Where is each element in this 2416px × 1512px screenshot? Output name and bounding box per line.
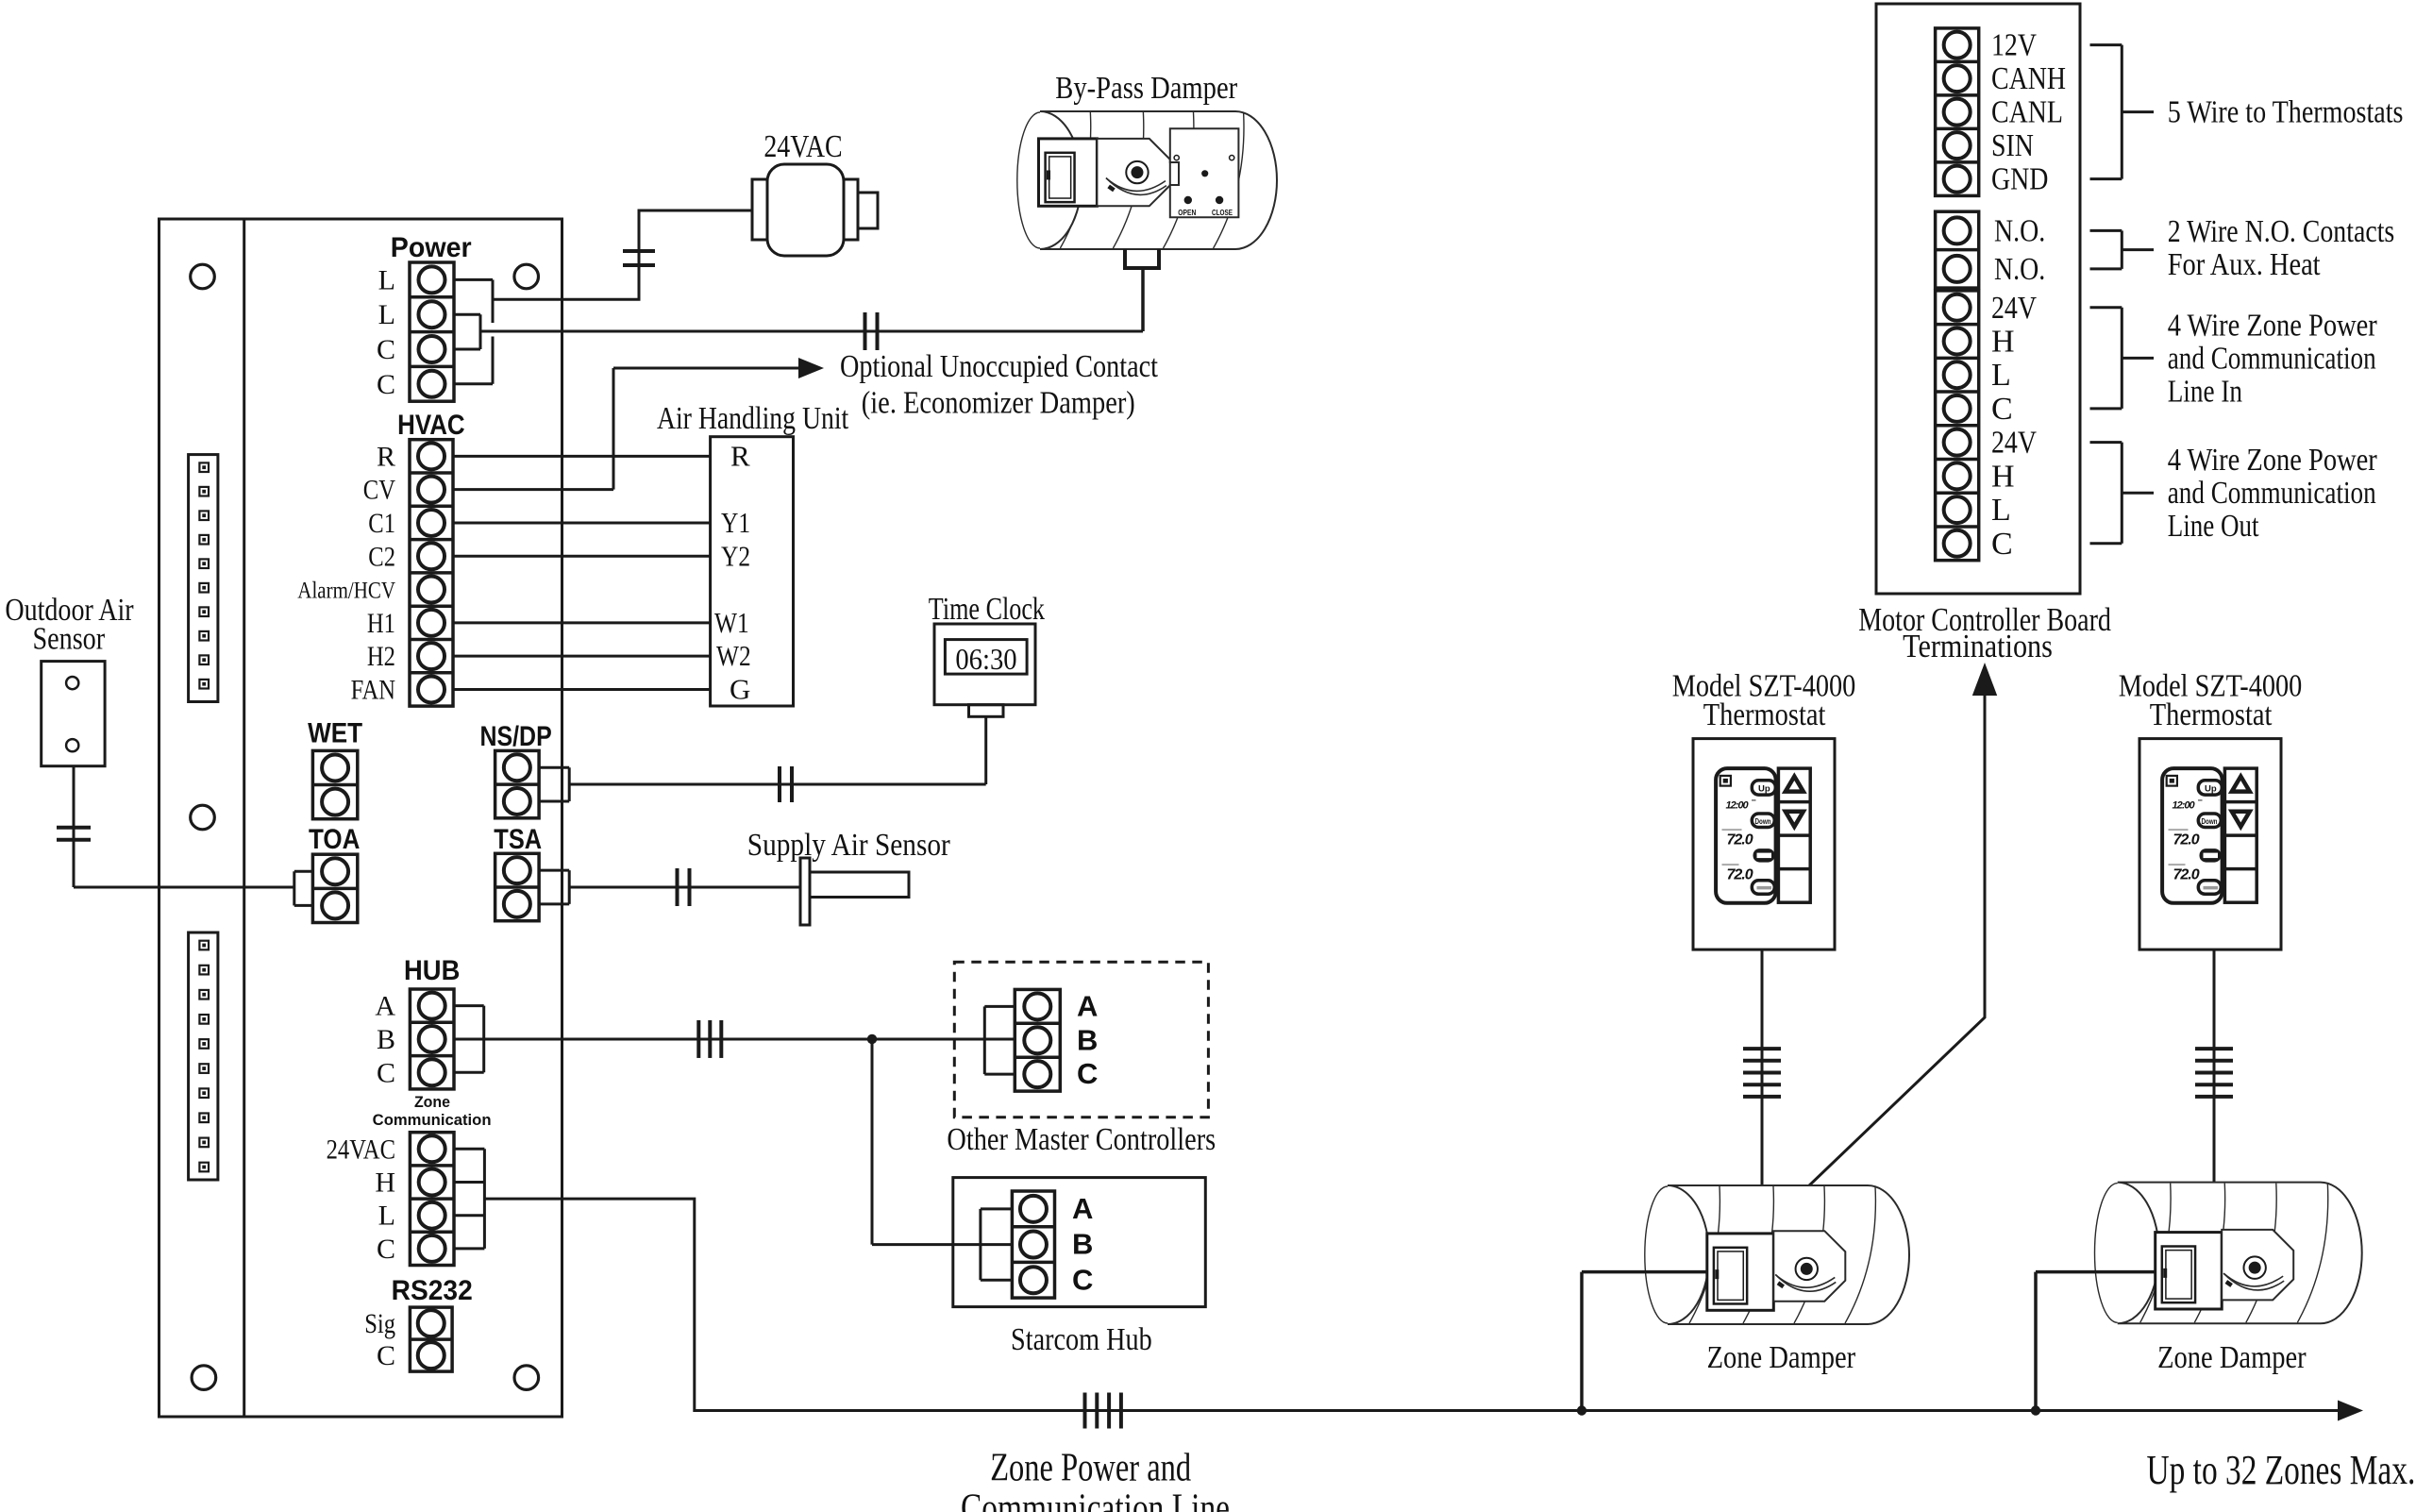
svg-text:72.0: 72.0 [2173,832,2200,848]
svg-text:Other Master Controllers: Other Master Controllers [947,1122,1216,1157]
svg-text:24VAC: 24VAC [327,1134,395,1165]
svg-text:C: C [377,1057,395,1088]
svg-text:12:00: 12:00 [2173,800,2196,812]
svg-text:R: R [377,441,395,472]
svg-text:Zone Damper: Zone Damper [2157,1340,2307,1375]
svg-text:72.0: 72.0 [2173,867,2200,883]
svg-text:WET: WET [308,718,362,749]
svg-text:Y1: Y1 [721,506,750,539]
svg-text:12:00: 12:00 [1726,800,1750,812]
svg-text:Air Handling Unit: Air Handling Unit [657,401,849,436]
svg-text:Line In: Line In [2168,374,2242,409]
svg-text:C2: C2 [368,541,395,572]
svg-text:OPEN: OPEN [1178,209,1196,217]
svg-text:SIN: SIN [1991,128,2034,163]
svg-text:C1: C1 [368,508,395,539]
svg-text:TSA: TSA [494,824,542,855]
svg-text:24VAC: 24VAC [763,129,842,164]
svg-text:2 Wire N.O. Contacts: 2 Wire N.O. Contacts [2168,214,2395,249]
svg-text:72.0: 72.0 [1727,867,1753,883]
svg-text:RS232: RS232 [392,1275,473,1306]
svg-text:H: H [1991,459,2015,494]
svg-text:W1: W1 [714,606,749,639]
svg-text:C: C [377,1234,395,1265]
svg-text:TOA: TOA [309,824,360,855]
svg-text:Y2: Y2 [721,539,750,572]
svg-text:Power: Power [391,232,472,263]
svg-text:Up: Up [2205,783,2217,794]
svg-text:N.O.: N.O. [1994,252,2045,287]
svg-text:G: G [730,672,750,705]
svg-text:C: C [1991,392,2013,427]
svg-text:C: C [1991,527,2013,562]
svg-text:Alarm/HCV: Alarm/HCV [297,579,395,604]
svg-text:06:30: 06:30 [955,642,1016,676]
svg-text:Sensor: Sensor [32,621,105,656]
svg-text:R: R [730,439,750,472]
svg-text:Optional Unoccupied Contact: Optional Unoccupied Contact [840,349,1158,384]
svg-text:B: B [1072,1228,1093,1261]
svg-text:HUB: HUB [404,955,460,986]
svg-text:H1: H1 [367,608,395,639]
svg-text:Zone Damper: Zone Damper [1707,1340,1856,1375]
svg-text:24V: 24V [1991,426,2037,461]
svg-text:Up: Up [1758,783,1770,794]
svg-text:N.O.: N.O. [1994,213,2045,248]
svg-text:W2: W2 [716,639,751,672]
svg-text:Thermostat: Thermostat [2150,697,2273,732]
svg-text:24V: 24V [1991,291,2037,326]
svg-text:C: C [1072,1263,1093,1296]
svg-text:L: L [1991,358,2011,393]
svg-text:Thermostat: Thermostat [1703,697,1826,732]
svg-text:By-Pass Damper: By-Pass Damper [1055,71,1237,106]
svg-text:C: C [1077,1057,1098,1090]
svg-text:CLOSE: CLOSE [1212,209,1233,217]
svg-text:L: L [378,264,395,295]
svg-text:B: B [377,1024,395,1055]
svg-text:Zone: Zone [414,1094,450,1111]
svg-text:NS/DP: NS/DP [480,721,552,752]
svg-text:A: A [1072,1192,1093,1225]
svg-text:Up to 32 Zones Max.: Up to 32 Zones Max. [2147,1447,2416,1493]
svg-text:CANH: CANH [1991,61,2066,96]
svg-text:(ie. Economizer Damper): (ie. Economizer Damper) [862,385,1135,420]
svg-text:C: C [377,1340,395,1371]
svg-text:Zone Power and: Zone Power and [990,1446,1191,1489]
svg-text:HVAC: HVAC [397,410,465,441]
svg-text:L: L [1991,493,2011,528]
svg-text:5 Wire to Thermostats: 5 Wire to Thermostats [2168,95,2404,130]
svg-text:Communication Line: Communication Line [961,1487,1230,1512]
svg-text:Sig: Sig [364,1308,395,1339]
svg-text:12V: 12V [1991,28,2037,63]
svg-text:and Communication: and Communication [2168,476,2376,511]
svg-text:and Communication: and Communication [2168,341,2376,376]
svg-text:CANL: CANL [1991,95,2063,130]
svg-text:72.0: 72.0 [1727,832,1753,848]
svg-text:CV: CV [363,475,395,506]
svg-text:Communication: Communication [373,1112,492,1129]
svg-text:FAN: FAN [351,674,395,705]
svg-text:H2: H2 [367,641,395,672]
svg-text:Line Out: Line Out [2168,509,2259,544]
svg-text:4 Wire Zone Power: 4 Wire Zone Power [2168,308,2378,343]
svg-text:Down: Down [2202,817,2218,826]
svg-text:C: C [377,369,395,400]
svg-text:H: H [375,1168,395,1199]
svg-text:GND: GND [1991,162,2048,197]
svg-text:Terminations: Terminations [1903,628,2053,664]
svg-text:A: A [1077,989,1098,1022]
svg-text:L: L [378,1201,395,1232]
svg-text:A: A [375,991,395,1022]
svg-text:4 Wire Zone Power: 4 Wire Zone Power [2168,443,2378,478]
svg-text:Starcom Hub: Starcom Hub [1011,1322,1152,1357]
svg-text:L: L [378,299,395,330]
svg-text:Supply Air Sensor: Supply Air Sensor [747,828,951,863]
svg-text:C: C [377,334,395,365]
svg-text:Time Clock: Time Clock [929,592,1045,627]
svg-text:B: B [1077,1023,1098,1056]
svg-text:H: H [1991,324,2015,359]
svg-text:For Aux. Heat: For Aux. Heat [2168,247,2321,282]
svg-text:Down: Down [1755,817,1771,826]
